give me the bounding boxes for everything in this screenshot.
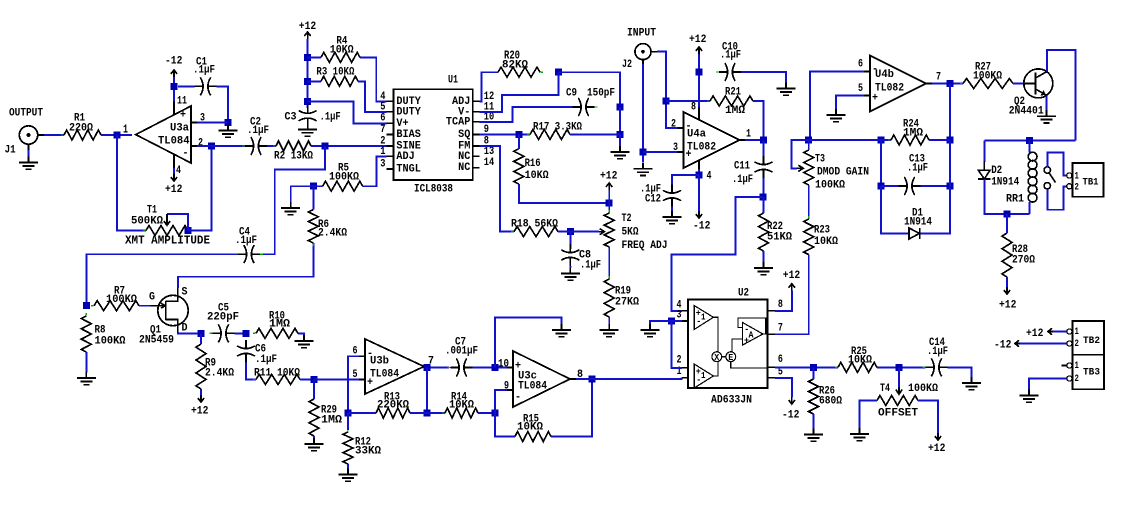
T3 wiper arrow [797, 165, 803, 171]
svg-text:J1: J1 [5, 145, 16, 157]
wire T4 right to +12 [918, 401, 938, 434]
svg-text:C12: C12 [645, 194, 661, 206]
wire node1 down to T1 [117, 135, 146, 231]
svg-text:6: 6 [778, 354, 783, 366]
power +12 at T2 [600, 171, 618, 190]
svg-text:TB3: TB3 [1083, 367, 1100, 379]
power -12 at U3a pin 11 [165, 56, 183, 77]
wire R29 to ground [313, 436, 315, 439]
svg-text:8: 8 [778, 299, 783, 311]
junction SQ right node [617, 131, 624, 138]
svg-text:A: A [749, 331, 755, 341]
svg-text:U1: U1 [448, 75, 458, 87]
wire U4b pin6 row [810, 72, 864, 141]
wire node to U3b pin5 [314, 379, 359, 381]
wire R10 to ground [298, 333, 304, 335]
svg-text:+12: +12 [1026, 328, 1044, 340]
op-amp U3b TL084 [353, 339, 435, 394]
svg-text:.1μF: .1μF [907, 163, 928, 175]
junction SQ R16 node [515, 131, 522, 138]
wire R13 to R14 [410, 412, 445, 414]
ground at U4a pin3 [634, 163, 653, 176]
svg-text:10KΩ: 10KΩ [814, 236, 838, 248]
capacitor C12 .1uF [640, 184, 681, 207]
svg-text:NC: NC [458, 151, 470, 163]
junction T2 top node [606, 199, 613, 206]
svg-text:150pF: 150pF [587, 88, 615, 100]
resistor R5 100Kohm [320, 163, 366, 192]
svg-text:2: 2 [677, 354, 682, 366]
wire R5 lead [313, 185, 322, 187]
svg-text:FREQ ADJ: FREQ ADJ [622, 240, 668, 252]
ground at C3 [298, 123, 317, 136]
svg-text:D2: D2 [991, 165, 1002, 177]
wire switch top to TB1 pin1 [1047, 152, 1066, 175]
terminal block TB1 [1067, 163, 1104, 197]
junction U3b out [424, 364, 431, 371]
junction U4b out [947, 80, 954, 87]
ground at R5 node [281, 202, 300, 215]
resistor R22 51Kohm [759, 210, 793, 254]
resistor R16 10Kohm [514, 146, 549, 187]
junction R18 C8 node [567, 228, 574, 235]
svg-text:-: - [183, 148, 189, 160]
wire J2 to U4a pin2 [657, 52, 678, 128]
wire R21 to out node [753, 101, 764, 140]
op-amp U4a TL082 [671, 102, 751, 183]
wire T4 wiper wire [898, 367, 900, 387]
svg-text:33KΩ: 33KΩ [355, 446, 381, 458]
svg-text:OFFSET: OFFSET [878, 408, 918, 420]
ground at TB3 [1020, 390, 1039, 403]
svg-text:680Ω: 680Ω [819, 396, 842, 408]
resistor R15 10Kohm [512, 414, 554, 442]
power -12 at U4a pin4 [693, 211, 711, 233]
wire J1 to R1 [44, 134, 64, 136]
capacitor C5 220pF [207, 303, 239, 343]
potentiometer T4 100Kohm [874, 383, 938, 420]
wire R24 right down [949, 140, 951, 186]
op-amp U4b TL082 [858, 56, 941, 112]
wire R28 to +12 [1006, 277, 1008, 287]
wire +12 to T2 [608, 190, 610, 213]
terminal block TB3 [1067, 355, 1104, 390]
resistor R9 2.4Kohm [196, 341, 234, 392]
svg-text:+12: +12 [783, 270, 801, 282]
ground at U3a pin 3 [219, 125, 238, 138]
svg-text:100KΩ: 100KΩ [106, 294, 137, 306]
resistor R4 10Kohm [318, 36, 363, 63]
svg-text:2.4KΩ: 2.4KΩ [205, 368, 234, 380]
wire node to R29 [313, 380, 315, 400]
wire U1 pin9 SQ to R17 [480, 134, 530, 136]
svg-text:8: 8 [691, 102, 696, 114]
svg-text:+: + [744, 336, 749, 346]
wire R13 left lead [348, 412, 376, 414]
potentiometer T2 5Kohm [604, 210, 667, 252]
wire Q2 collector up over [1047, 50, 1076, 141]
svg-text:-12: -12 [165, 56, 183, 68]
svg-text:+12: +12 [191, 406, 209, 418]
wire node to R26 [813, 367, 815, 379]
wire R13 node to R12 [347, 413, 349, 430]
resistor R14 10Kohm [442, 392, 481, 418]
svg-text:100KΩ: 100KΩ [973, 71, 1002, 83]
svg-text:R2 13KΩ: R2 13KΩ [274, 151, 313, 163]
wire pin4 to C12 [672, 175, 699, 187]
svg-text:+12: +12 [165, 184, 183, 196]
svg-text:TL084: TL084 [518, 381, 547, 393]
wire R3 to U1 pin5 [358, 81, 387, 112]
wire U3b out [430, 367, 449, 369]
svg-text:+12: +12 [689, 34, 707, 46]
svg-text:TL084: TL084 [158, 136, 190, 148]
wire coil bottom lead [1029, 202, 1031, 214]
wire T1 wiper loop [167, 214, 188, 231]
ground at C8 [561, 268, 580, 281]
svg-text:1N914: 1N914 [991, 177, 1019, 189]
wire C4 to left column [86, 254, 238, 306]
svg-text:TB2: TB2 [1083, 335, 1100, 347]
svg-text:10KΩ: 10KΩ [525, 170, 549, 182]
wire SQ node to R16 [518, 135, 520, 149]
junction R7 R8 [83, 302, 90, 309]
wire R20 node to U1 pin11 [480, 72, 559, 112]
svg-text:1: 1 [701, 371, 706, 381]
svg-text:+: + [367, 377, 373, 389]
wire U3b pin6 to R13 node [348, 356, 359, 413]
svg-text:9: 9 [504, 381, 509, 393]
wire T4 left to ground [860, 401, 878, 429]
power +12 at R9 [191, 395, 209, 418]
svg-text:1MΩ: 1MΩ [725, 105, 745, 117]
svg-text:10KΩ: 10KΩ [330, 45, 354, 57]
wire U2 pin6 row [775, 366, 838, 368]
terminal block TB2 [1067, 321, 1104, 355]
resistor R21 1Mohm [707, 87, 756, 118]
svg-text:100KΩ: 100KΩ [815, 180, 845, 192]
wire node to C8 [569, 232, 571, 249]
capacitor C13 .1uF [896, 154, 929, 195]
potentiometer T1 500Kohm [131, 205, 191, 236]
resistor R19 27Kohm [604, 276, 639, 320]
wire U4a out [745, 139, 764, 141]
wire node to R6 [312, 186, 314, 209]
diode D2 1N914 [978, 141, 1019, 189]
svg-text:10KΩ: 10KΩ [848, 355, 872, 367]
resistor R1 220ohm [61, 113, 104, 140]
ground at R26 [804, 429, 823, 442]
svg-text:.1μF: .1μF [247, 125, 269, 137]
power +12 at U4a pin8 [689, 34, 707, 54]
ground at R12 [339, 469, 358, 482]
junction pin3 node [225, 119, 232, 126]
wire U1 pin10 to C9 [480, 107, 573, 122]
resistor R8 100Kohm [81, 313, 125, 355]
wire Q2 emitter to ground [1046, 95, 1048, 110]
svg-text:2: 2 [671, 119, 676, 131]
relay coil RR1 [1006, 152, 1037, 205]
svg-text:2: 2 [1075, 373, 1079, 385]
transistor Q1 2N5459 JFET [139, 287, 188, 347]
wire R16 to T2 node [519, 184, 609, 203]
svg-text:-: - [696, 317, 701, 327]
wire out node down [949, 84, 951, 141]
junction Q1 drain node [198, 330, 205, 337]
ground at SQ node [611, 146, 630, 159]
svg-text:TCAP: TCAP [446, 117, 471, 129]
wire U1 pin8 FM to R18 [480, 146, 514, 232]
wire D2 to bottom row [984, 179, 1029, 214]
capacitor C2 .1uF [242, 117, 270, 155]
wire U4b out [932, 83, 963, 85]
ground at Q2 emitter [1037, 110, 1056, 123]
wire C7 to U3c pin10 [473, 367, 508, 369]
wire node to U4a pin3 [643, 151, 678, 153]
svg-text:1: 1 [1075, 326, 1079, 338]
junction T1 right end [185, 227, 192, 234]
svg-text:100KΩ: 100KΩ [908, 383, 938, 395]
ground at R10 [295, 335, 314, 348]
power +12 at T4 [928, 433, 946, 455]
junction R13 node [345, 410, 352, 417]
resistor R28 270ohm [1002, 230, 1035, 280]
junction SINE node [322, 143, 329, 150]
resistor R18 56Kohm [511, 219, 561, 237]
ground at R19 [600, 324, 619, 337]
svg-text:SQ: SQ [458, 129, 470, 141]
svg-text:3: 3 [677, 309, 682, 321]
svg-text:2: 2 [198, 138, 203, 150]
connector J2 INPUT [622, 28, 657, 71]
svg-text:NC: NC [458, 162, 470, 174]
svg-text:+12: +12 [928, 443, 946, 455]
wire U4a pin4 node [698, 169, 700, 175]
wire J2 shield down [642, 64, 644, 163]
svg-text:.1μF: .1μF [320, 112, 341, 124]
capacitor C1 .1uF [192, 57, 220, 96]
capacitor C11 .1uF [732, 156, 773, 186]
wire C8 to ground [569, 266, 571, 268]
svg-text:+12: +12 [999, 300, 1017, 312]
svg-text:-: - [872, 64, 878, 76]
svg-text:2: 2 [1075, 338, 1079, 350]
wire U3b out to R14 [426, 368, 428, 414]
svg-text:T2: T2 [622, 213, 632, 225]
svg-text:220pF: 220pF [207, 312, 239, 324]
ground at C14 [962, 377, 981, 390]
svg-text:82KΩ: 82KΩ [502, 60, 528, 72]
wire pin3 node to pin3 [672, 320, 682, 322]
svg-text:1: 1 [123, 123, 128, 137]
junction R13 R14 [424, 410, 431, 417]
svg-text:270Ω: 270Ω [1012, 255, 1035, 267]
junction C5 C6 R10 [243, 330, 250, 337]
node 1 label [123, 123, 128, 137]
svg-text:51KΩ: 51KΩ [767, 232, 792, 244]
svg-text:1: 1 [701, 313, 706, 323]
wire R2 to U1 SINE [311, 145, 387, 147]
wire R7 to Q1 gate [139, 305, 151, 307]
wire D1 row right [921, 186, 951, 233]
capacitor C14 .1uF [923, 337, 951, 376]
svg-text:-12: -12 [994, 340, 1012, 352]
wire pin4 to +12 arrow [173, 168, 175, 174]
junction R14 R15 node [492, 410, 499, 417]
wire U2 pin5 to -12 [775, 378, 792, 397]
transistor Q2 2N4401 [1009, 69, 1053, 118]
svg-text:RR1: RR1 [1006, 194, 1024, 206]
resistor R25 10Kohm [835, 346, 880, 372]
wire V+ to U1 pin6 [308, 102, 387, 124]
resistor R10 1Mohm [253, 311, 301, 339]
resistor R29 1Mohm [309, 396, 342, 439]
svg-text:DUTY: DUTY [396, 107, 421, 119]
junction R26 top [810, 364, 817, 371]
capacitor C7 .001uF [445, 337, 478, 377]
ground at C10 [777, 83, 796, 96]
ground at U3c bias wire [552, 324, 571, 337]
wire R18 to node [558, 231, 570, 233]
junction U3a pin 2 [208, 143, 215, 150]
svg-text:+: + [872, 93, 878, 105]
wire C13 right lead [921, 185, 951, 187]
svg-text:-: - [367, 348, 373, 360]
svg-text:TNGL: TNGL [396, 164, 421, 176]
resistor R13 220Kohm [373, 392, 413, 418]
wire TB3 pin2 to ground [1029, 379, 1067, 390]
wire pin11 to -12 [173, 77, 175, 102]
resistor R24 1Mohm [888, 119, 932, 145]
capacitor C4 .1uF [235, 227, 263, 264]
wire C1 left lead [178, 85, 195, 87]
wire R4 to U1 pin4 [360, 57, 387, 101]
svg-text:5: 5 [353, 369, 358, 381]
svg-text:C11: C11 [734, 161, 750, 173]
svg-text:+12: +12 [299, 21, 317, 33]
wire +12 to TB2 pin1 [1053, 331, 1067, 333]
junction V+ tap [304, 98, 311, 105]
svg-text:1MΩ: 1MΩ [321, 415, 342, 427]
wire R17 to SQ right node [570, 134, 620, 136]
wire pin3 node to ground [650, 321, 672, 324]
junction U3c pin10 [492, 364, 499, 371]
svg-text:INPUT: INPUT [627, 28, 656, 40]
svg-text:U3a: U3a [170, 123, 189, 135]
wire R20 node to C9 node [558, 72, 620, 107]
wire drain node to R9 [200, 333, 202, 344]
TB3 pin1 stub [1062, 365, 1067, 367]
svg-text:X: X [714, 353, 720, 363]
wire R1 to node 1 [101, 134, 132, 136]
wire R14 to node [478, 412, 495, 414]
svg-text:T4: T4 [880, 383, 890, 395]
svg-text:.1μF: .1μF [235, 235, 257, 247]
svg-text:ICL8038: ICL8038 [414, 184, 453, 196]
junction node 1 [114, 132, 121, 139]
junction U4a pin3 node [640, 149, 647, 156]
wire pin10 node to ground wire [495, 317, 562, 367]
wire R14 node to U3c pin9 [495, 390, 507, 413]
svg-text:V+: V+ [396, 118, 408, 130]
wire U4b pin5 to ground [836, 96, 864, 110]
wire R8 to ground [85, 352, 87, 373]
resistor R6 2.4Kohm [308, 207, 347, 246]
wire +12 down C3 stack [307, 39, 309, 108]
resistor R23 10Kohm [804, 216, 839, 258]
wire R15 loop right [551, 379, 592, 437]
wire T3 to R23 [808, 185, 810, 219]
IC U2 AD633JN multiplier [677, 288, 784, 407]
connector J1 OUTPUT [5, 108, 44, 157]
capacitor C10 .1uF [716, 42, 744, 81]
wire C13 left lead [881, 185, 899, 187]
ground at T4 left [850, 428, 869, 441]
wire R9 to +12 [200, 389, 202, 395]
wire Q1 drain to node [178, 332, 201, 333]
wire SQ node to ground [619, 135, 621, 147]
wire R15 loop left [495, 413, 515, 437]
svg-text:220Ω: 220Ω [69, 123, 93, 135]
svg-text:2N5459: 2N5459 [139, 335, 174, 347]
svg-text:1: 1 [746, 129, 751, 141]
wire pin4 to -12 [698, 175, 700, 211]
capacitor C6 .1uF [237, 340, 277, 366]
potentiometer T3 100Kohm [804, 147, 869, 192]
svg-text:5KΩ: 5KΩ [622, 227, 639, 239]
svg-text:7: 7 [778, 322, 783, 334]
wire R24 right lead [929, 139, 950, 141]
power +12 at U3a pin 4 [165, 174, 183, 196]
wire C6 to R11 [246, 362, 256, 380]
svg-text:+: + [686, 149, 692, 161]
wire R11 to node [300, 379, 314, 381]
junction R24 right [947, 137, 954, 144]
svg-text:-: - [696, 376, 701, 386]
label R20 [504, 49, 520, 63]
svg-text:1N914: 1N914 [904, 217, 932, 229]
svg-text:5: 5 [858, 83, 863, 95]
ground at J1 [19, 157, 38, 170]
ground at U2 pin3 node [641, 324, 660, 337]
resistor R27 100Kohm [960, 62, 1016, 89]
svg-text:T3: T3 [815, 154, 825, 166]
resistor R17 3.3Kohm [527, 122, 582, 140]
svg-text:AD633JN: AD633JN [711, 395, 752, 407]
relay switch contacts [1044, 167, 1055, 189]
svg-text:R11 10KΩ: R11 10KΩ [254, 368, 300, 380]
wire T1 to U3a pin2 node [188, 146, 212, 231]
wire -12 to TB2 pin2 [1020, 343, 1067, 345]
wire U3a pin2 to C2 [197, 145, 245, 147]
svg-text:BIAS: BIAS [396, 129, 421, 141]
wire R23 to U2 pin7 [775, 255, 809, 335]
svg-text:.001μF: .001μF [445, 346, 478, 358]
wire J1 shield to ground [28, 150, 30, 157]
svg-text:1MΩ: 1MΩ [903, 128, 923, 140]
junction C1 left [171, 83, 178, 90]
wire relay top row [984, 140, 1075, 142]
resistor R11 10Kohm [253, 368, 303, 385]
power +12 at R28 [999, 287, 1017, 312]
resistor R20 82Kohm [495, 60, 543, 78]
svg-text:2: 2 [1075, 182, 1079, 194]
junction C13 left [878, 183, 885, 190]
svg-text:J2: J2 [622, 59, 632, 71]
power +12 at TB2 pin1 [1026, 328, 1055, 340]
svg-text:13: 13 [484, 146, 495, 158]
junction C9 right [617, 104, 624, 111]
